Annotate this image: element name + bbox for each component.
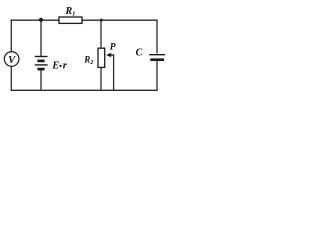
svg-text:E: E [51,60,59,71]
wire R2-top [100,20,102,48]
svg-text:C: C [136,48,143,59]
wire wiper-down [113,55,115,90]
svg-text:V: V [8,55,16,66]
wire right-upper [156,20,158,53]
wire battery-top [40,20,42,55]
svg-text:P: P [110,43,116,53]
label E,r [51,60,68,71]
node junction at battery top [39,18,43,22]
wiper arrow P [106,53,114,57]
wire right-lower [156,61,158,90]
wire top [11,19,157,21]
wire left-upper [10,20,12,52]
wire battery-bottom [40,70,42,90]
wire bottom [11,89,157,91]
wire R2-bottom [100,67,102,90]
wire left-lower [10,66,12,90]
capacitor C [149,55,165,60]
resistor R2 [98,48,105,67]
node junction at R2 top [100,19,103,22]
resistor R1 [59,17,82,23]
voltmeter V [4,52,19,67]
battery E,r [35,57,48,70]
